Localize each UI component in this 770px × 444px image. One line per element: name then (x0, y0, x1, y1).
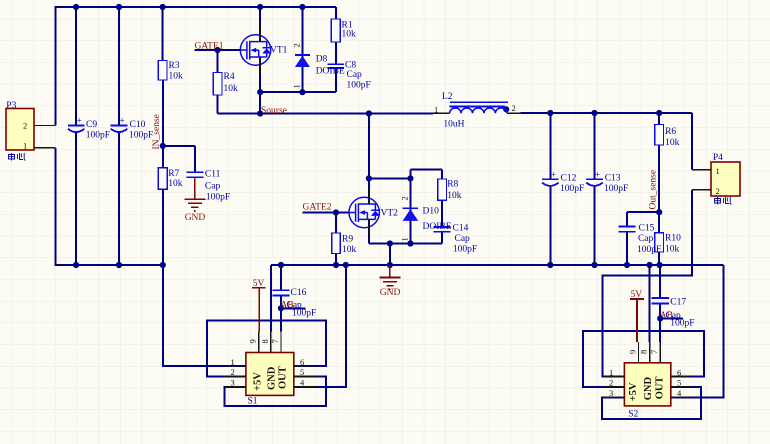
op-amp/regulator S2 (603, 342, 692, 420)
S2 pin 6 (671, 376, 692, 378)
S1 pin 6 (294, 365, 315, 367)
svg-text:AB: AB (281, 300, 294, 310)
svg-text:10k: 10k (342, 245, 357, 255)
svg-text:GND: GND (185, 213, 206, 223)
S1 pin 4 (294, 386, 315, 388)
svg-text:5: 5 (300, 367, 304, 377)
P3 pin 1 (34, 147, 56, 149)
resistor R1 pin wires to C8 (335, 7, 337, 64)
S1 pin 1 (224, 365, 246, 367)
S1 pin 9 (258, 331, 260, 352)
junction top rail at D8 (299, 4, 305, 10)
junction top rail at C10 (116, 4, 122, 10)
resistor R4 (213, 72, 238, 95)
svg-text:10k: 10k (342, 30, 357, 40)
S2 pin 3 (603, 396, 624, 398)
svg-text:C16: C16 (291, 288, 307, 298)
svg-text:L2: L2 (442, 92, 453, 102)
svg-text:100pF: 100pF (637, 245, 661, 255)
connector P3 (6, 101, 56, 161)
junction net AB at C17 bottom (657, 315, 663, 321)
svg-text:1: 1 (292, 84, 302, 88)
junction GATE1 at R4 (214, 47, 220, 53)
svg-text:DOIBE: DOIBE (423, 222, 452, 232)
svg-text:R3: R3 (169, 61, 180, 71)
svg-text:C8: C8 (345, 61, 356, 71)
svg-text:3: 3 (231, 378, 235, 388)
S2 pin 8 (649, 342, 651, 363)
VT2 drain pin (368, 189, 370, 205)
svg-text:GATE1: GATE1 (195, 41, 224, 51)
svg-text:1: 1 (400, 237, 410, 241)
svg-text:Cap: Cap (205, 182, 221, 192)
svg-text:Cap: Cap (638, 234, 654, 244)
S2 pin 5 (671, 386, 692, 388)
wire S2 loop pin5 to pin3 (602, 387, 701, 419)
wire rail B drop to S2 pin8 (649, 265, 651, 342)
resistor R6 column wires (Out_sense net) (658, 113, 660, 212)
svg-text:6: 6 (677, 367, 681, 377)
svg-text:3: 3 (609, 388, 613, 398)
capacitor C9 column wires (75, 7, 77, 265)
resistor R9 pin wires (335, 213, 337, 266)
wire VT1 drain (259, 7, 261, 42)
junction rail B at R9 (333, 262, 339, 268)
wire net AB stub at C16 (281, 307, 305, 309)
capacitor C8 (327, 61, 370, 91)
svg-text:100pF: 100pF (560, 184, 584, 194)
svg-text:R7: R7 (168, 169, 179, 179)
svg-text:10uH: 10uH (443, 119, 464, 129)
svg-text:C10: C10 (130, 120, 146, 130)
junction VT1 source node (257, 89, 263, 95)
wire GATE1 net (195, 49, 241, 51)
capacitor C16 column wires (280, 265, 282, 331)
wire net AB stub at C17 (660, 317, 683, 319)
svg-text:GND: GND (380, 288, 401, 298)
svg-text:10k: 10k (169, 72, 184, 82)
capacitor C11 (186, 170, 230, 203)
svg-text:1: 1 (609, 367, 613, 377)
svg-text:100pF: 100pF (86, 130, 110, 140)
resistor R7 (158, 168, 182, 189)
S2 pin 1 (603, 376, 624, 378)
transistor VT2 (N-MOSFET) (349, 189, 398, 237)
wire VT1 source down through node to Source rail (259, 57, 261, 114)
svg-text:GND: GND (267, 366, 278, 390)
svg-text:7: 7 (270, 339, 280, 343)
capacitor C17 column wires (659, 265, 661, 342)
svg-text:100pF: 100pF (206, 193, 230, 203)
wire to C11 (163, 146, 195, 172)
S2 pin 9 (638, 342, 640, 363)
VT2 source pin (368, 219, 370, 236)
junction rail B at C13 (591, 262, 597, 268)
junction Source rail at VT2 drain (366, 110, 372, 116)
capacitor C13 column wires (594, 113, 596, 265)
junction rail B at S2 pin8 drop (647, 262, 653, 268)
svg-text:C12: C12 (561, 173, 577, 183)
S2 pin 2 (603, 386, 624, 388)
resistor R3 (158, 61, 183, 82)
svg-text:2: 2 (231, 367, 235, 377)
junction rail B at S1 pin4 riser (343, 262, 349, 268)
wire P3 pin1 riser down to ground rail A and over to S1 pin1 (56, 148, 246, 366)
svg-text:R8: R8 (447, 180, 458, 190)
wire S1 loop pin5 to pin3 (224, 376, 325, 406)
svg-text:GND: GND (643, 377, 654, 401)
S1 pin 7 (280, 331, 282, 352)
svg-text:2: 2 (23, 121, 27, 131)
S1 pin 5 (294, 375, 315, 377)
svg-text:100pF: 100pF (292, 308, 316, 318)
svg-text:100pF: 100pF (347, 81, 371, 91)
S1 pin 3 (224, 386, 246, 388)
svg-text:+5V: +5V (628, 382, 639, 401)
svg-text:C11: C11 (205, 170, 221, 180)
svg-text:Out_sense: Out_sense (649, 170, 659, 210)
transistor VT1 (N-MOSFET) (240, 26, 287, 74)
diode D10 DOIBE (400, 196, 452, 241)
resistor R1 (331, 19, 356, 42)
svg-text:10k: 10k (168, 179, 183, 189)
svg-text:100pF: 100pF (453, 245, 477, 255)
svg-text:Cap: Cap (347, 70, 363, 80)
junction rail B at C15 (624, 262, 630, 268)
P4 pin 2 (692, 189, 711, 191)
wire VT2 drain branch to D10 (369, 177, 411, 179)
power port 5V at S2 (630, 290, 644, 342)
junction VT2 drain node (366, 175, 372, 181)
L2 pin 2 (507, 112, 521, 114)
capacitor C12 (polarized) (542, 171, 584, 195)
S1 pin 8 (270, 331, 272, 352)
junction rail A at C9 (73, 262, 79, 268)
junction IN_sense at C11 tap (160, 143, 166, 149)
svg-text:10k: 10k (447, 191, 462, 201)
junction output rail at C13 (591, 110, 597, 116)
svg-text:R9: R9 (342, 235, 353, 245)
wire rail B drop to S1 pin8 (270, 265, 272, 331)
junction at L2 pin2 (503, 106, 509, 112)
svg-text:S2: S2 (628, 409, 638, 419)
svg-text:C17: C17 (670, 298, 686, 308)
svg-text:6: 6 (300, 357, 304, 367)
wire C15 link (627, 212, 659, 265)
svg-text:IN_sense: IN_sense (152, 114, 162, 149)
capacitor C15 (619, 223, 662, 255)
svg-text:+: + (551, 171, 556, 181)
svg-text:P4: P4 (713, 153, 723, 163)
S1 pin 2 (224, 375, 246, 377)
power port 5V at S1 (252, 279, 266, 332)
wire D10 top link to R8 and D10 column (410, 170, 442, 244)
capacitor C17 (652, 298, 695, 329)
connector P4 (692, 153, 740, 205)
svg-text:8: 8 (260, 339, 270, 343)
svg-text:R4: R4 (224, 72, 235, 82)
capacitor C16 (272, 288, 316, 319)
wire S2 feedback frame pin6 to pin2 (583, 331, 704, 387)
svg-text:5: 5 (677, 378, 681, 388)
VT1 source pin (259, 57, 261, 74)
P3 value label (battery) (9, 153, 26, 161)
capacitor C10 (polarized) (111, 117, 154, 141)
resistor R8 pin wires and C14 column (441, 170, 443, 244)
svg-text:+: + (77, 117, 82, 127)
resistor R10 pin wires (658, 212, 660, 265)
svg-text:9: 9 (248, 339, 258, 343)
svg-text:1: 1 (231, 357, 235, 367)
resistor R4 pin wires (217, 50, 219, 114)
junction Out_sense node at R6 bottom (656, 209, 662, 215)
resistor R9 (332, 233, 357, 255)
svg-text:C14: C14 (453, 224, 469, 234)
resistor R3/R7 column wire (IN_sense net) (162, 7, 164, 265)
svg-text:7: 7 (649, 350, 659, 354)
svg-text:AB: AB (660, 311, 673, 321)
svg-text:VT2: VT2 (381, 209, 399, 219)
wire ground rail B (271, 264, 724, 266)
svg-text:+: + (595, 171, 600, 181)
ground symbol GND at C11 (184, 177, 205, 223)
junction output rail at C12 (547, 110, 553, 116)
capacitor C10 column wires (118, 7, 120, 265)
svg-text:100pF: 100pF (129, 130, 153, 140)
svg-text:2: 2 (609, 378, 613, 388)
junction rail B at C16 (278, 262, 284, 268)
junction net AB at C16 bottom (278, 305, 284, 311)
junction VT2 drain node at D10 (407, 175, 413, 181)
P4 pin 1 (692, 169, 711, 171)
wire output rail from L2 pin2 to P4 pin1 riser (521, 113, 692, 170)
capacitor C12 column wires (549, 113, 551, 265)
wire S2 pin1 feed from P4 pin2 (603, 190, 692, 377)
svg-text:2: 2 (512, 103, 516, 113)
capacitor C14 (434, 224, 477, 255)
wire GND drop from VT2 source node (389, 244, 391, 266)
junction rail B at C12 (547, 262, 553, 268)
junction top rail at R3 (160, 4, 166, 10)
junction rail A at C10 (116, 262, 122, 268)
svg-text:OUT: OUT (655, 377, 666, 400)
op-amp/regulator S1 (224, 331, 315, 406)
svg-text:C13: C13 (605, 173, 621, 183)
junction top rail at VT1 drain (257, 4, 263, 10)
wire GATE2 net (303, 212, 350, 214)
svg-text:P3: P3 (6, 101, 16, 111)
S2 pin 4 (671, 396, 692, 398)
svg-text:1: 1 (716, 166, 720, 176)
svg-text:R10: R10 (665, 234, 681, 244)
svg-text:+5V: +5V (253, 372, 264, 391)
svg-text:S1: S1 (248, 396, 258, 406)
svg-text:R6: R6 (665, 127, 676, 137)
junction Source rail at VT1 (257, 110, 263, 116)
resistor R10 (655, 233, 681, 255)
svg-text:Sourse: Sourse (261, 106, 287, 116)
svg-text:D8: D8 (316, 55, 328, 65)
svg-text:9: 9 (627, 350, 637, 354)
junction VT1 source node at D8 bottom (299, 89, 305, 95)
wire S1 pin4 riser to rail B (294, 265, 346, 387)
wire rail B right loop into S2 pin4 (671, 265, 724, 397)
diode D8 DOIBE (292, 43, 345, 88)
svg-text:100pF: 100pF (604, 184, 628, 194)
P3 pin 2 (34, 125, 56, 127)
svg-text:+: + (119, 117, 124, 127)
wire VT1 cell bottom node (260, 68, 336, 92)
svg-text:D10: D10 (423, 207, 440, 217)
svg-text:C15: C15 (639, 223, 655, 233)
wire S1 feedback frame pin6 to pin2 (207, 321, 326, 377)
svg-text:DOIBE: DOIBE (316, 67, 345, 77)
resistor R8 (438, 179, 462, 201)
capacitor C9 (polarized) (68, 117, 110, 141)
svg-text:2: 2 (716, 186, 720, 196)
S2 pin 7 (659, 342, 661, 363)
capacitor C13 (polarized) (586, 171, 628, 195)
wire VT2 drain riser (368, 114, 370, 205)
svg-text:Cap: Cap (455, 234, 471, 244)
svg-text:GATE2: GATE2 (303, 203, 332, 213)
svg-text:8: 8 (639, 350, 649, 354)
wire top rail from P3 pin2 riser across to R1 column (56, 7, 336, 126)
L2 pin 1 (433, 112, 450, 114)
junction rail B at GND symbol (387, 262, 393, 268)
junction rail A at R7 corner (160, 262, 166, 268)
junction VT2 source node at GND drop (387, 240, 393, 246)
svg-text:10k: 10k (224, 84, 239, 94)
svg-text:C9: C9 (86, 120, 97, 130)
ground symbol GND at rail B (379, 265, 400, 298)
P4 value label (battery) (715, 197, 732, 205)
junction rail B at R10/C17 (656, 262, 662, 268)
svg-text:1: 1 (23, 141, 27, 151)
diode D8 column wire (301, 7, 303, 92)
svg-text:10k: 10k (665, 245, 680, 255)
svg-text:1: 1 (434, 105, 438, 115)
wire VT2 source bottom node (369, 219, 442, 243)
wire Source rail (switch node) (218, 113, 433, 115)
svg-text:OUT: OUT (278, 366, 289, 389)
svg-text:VT1: VT1 (270, 46, 288, 56)
inductor L2 10uH (433, 92, 521, 129)
junction VT2 source node at D10 bottom (407, 240, 413, 246)
junction GATE2 at R9 (333, 209, 339, 215)
svg-text:2: 2 (400, 196, 410, 200)
svg-text:10k: 10k (665, 138, 680, 148)
junction top rail at C9 (73, 4, 79, 10)
VT1 drain pin (259, 26, 261, 42)
junction output rail at R6 (656, 110, 662, 116)
svg-text:100pF: 100pF (670, 319, 694, 329)
svg-text:2: 2 (292, 43, 302, 47)
resistor R6 (655, 124, 680, 148)
